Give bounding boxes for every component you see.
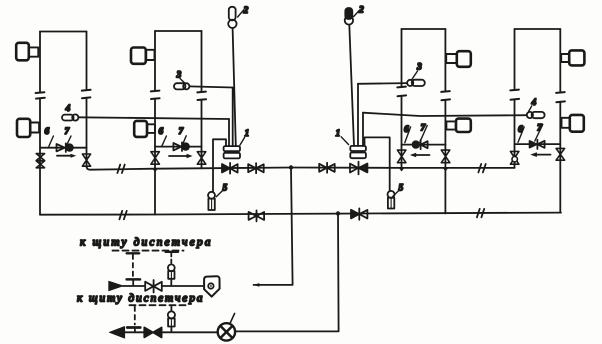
flow indicator 4 (S1): [62, 114, 78, 120]
flow indicator 3 (S3): [407, 80, 425, 86]
svg-text:6: 6: [159, 127, 164, 137]
wire: indicator4 drop into box1 right: [362, 113, 364, 146]
impulse line from indicator 3 to box 1 right: [358, 82, 407, 85]
pressure sensor 2 right: [345, 8, 353, 25]
svg-text:6: 6: [45, 127, 50, 137]
stub to pipe row2 left: [134, 329, 136, 332]
valve G row1 (gate): [145, 280, 162, 293]
pipe row2 segment a: [125, 331, 145, 333]
stub to pipe row1 left: [132, 281, 134, 286]
impulse line from indicator 3 to box 1 left: [189, 86, 232, 87]
leader 7 (S3): [420, 126, 427, 143]
motor M6 lower on S3: [446, 119, 470, 132]
valve A upper header (check, seat left): [222, 163, 238, 174]
orifice cartridge row2: [168, 311, 175, 326]
svg-text:7: 7: [179, 127, 185, 137]
dashed signal line row 1: [113, 250, 184, 252]
svg-text:4: 4: [65, 104, 71, 114]
svg-text:5: 5: [223, 184, 228, 194]
pipe break marks S2 left riser: [151, 91, 160, 99]
well separator S3 casing: [402, 29, 446, 214]
break mark upper header left: [117, 165, 124, 173]
gate valve S1 right: [82, 154, 90, 166]
impulse line from indicator 4 to box 1 left: [78, 117, 229, 119]
flow arrow S3: [410, 153, 430, 158]
motor M2 lower on S1: [17, 119, 39, 137]
junction blob S2-left/upper header: [153, 169, 158, 172]
leader 7 (S4): [535, 125, 543, 142]
gate valve S2 right: [197, 152, 206, 165]
leader 5 left: [216, 191, 222, 197]
leader 7 (S2): [183, 136, 186, 143]
leader 3 (S3): [412, 71, 418, 80]
node junction center lower: [336, 211, 340, 215]
dashed drop row1 right: [170, 253, 172, 264]
junction blob S3-right/upper header: [443, 168, 448, 171]
svg-text:7: 7: [65, 127, 71, 137]
wire sensor2 right to box1 right: [349, 25, 354, 146]
break mark upper header right: [478, 164, 485, 172]
pipe break marks S3 left riser: [397, 87, 406, 97]
gate valve S4 left with plug: [510, 151, 519, 164]
valve E lower header (gate): [249, 210, 265, 221]
instrument box 1 left: [224, 146, 240, 158]
leader 6 (S3): [405, 127, 411, 143]
dashed drop row2 right: [170, 307, 172, 312]
gate valve S3 left: [397, 150, 406, 163]
well separator S4 casing: [515, 29, 561, 213]
pipe row2 segment b: [162, 331, 218, 333]
sampler 5 right: [388, 191, 395, 209]
instrument box 1 right: [350, 146, 366, 158]
leader 2 left: [238, 10, 244, 17]
svg-text:1: 1: [336, 129, 341, 139]
panel tap T-bar row1 bottom: [127, 278, 140, 281]
well separator S2 casing: [155, 31, 202, 215]
upper header pipe: [87, 166, 515, 170]
break mark lower header left: [119, 211, 126, 219]
motor M8 lower on S4: [562, 115, 584, 132]
exit arrow row1: [109, 281, 123, 290]
cross pipe S4: [515, 143, 561, 145]
wire: indicator3 drop into box1: [232, 88, 234, 147]
leader 1 left: [240, 137, 245, 145]
gate valve S3 right: [441, 150, 450, 163]
leader 3 (S2): [180, 79, 185, 84]
wire sensor2 left to box1 left: [233, 28, 236, 146]
valve F lower header (check, seat left): [351, 208, 367, 219]
panel tap T-bar row1 right: [166, 251, 178, 253]
pressure sensor 2 left: [228, 7, 236, 28]
svg-text:5: 5: [399, 184, 404, 194]
well separator S1 casing: [40, 32, 87, 215]
arrow tip on dispatcher line: [253, 283, 259, 287]
check valve 7 (S2): [173, 142, 189, 151]
leader 7 (S1): [67, 136, 71, 145]
wire: indicator3 drop into box1 right: [357, 84, 359, 146]
motor M1 upper on S1: [16, 43, 38, 61]
blower device (circle-X) row2: [218, 313, 235, 340]
lower header pipe: [40, 213, 561, 215]
pipe break marks S3 right riser: [441, 91, 450, 100]
wire: indicator4 drop into box1: [228, 119, 230, 146]
check valve 7 (S1): [57, 143, 73, 152]
motor M3 upper on S2: [131, 48, 155, 64]
leader 6 (S1): [49, 136, 54, 146]
valve B upper header (gate): [248, 163, 264, 173]
sampler 5 left: [208, 192, 215, 210]
flow indicator 4 (S4): [527, 112, 545, 118]
break mark lower header right: [477, 209, 484, 217]
panel tap T-bar row2: [127, 326, 140, 329]
pipe break marks S4 right riser: [556, 92, 565, 102]
pipe break marks S1 left riser: [36, 92, 45, 98]
pipe break marks S2 right riser: [197, 92, 206, 100]
leader 6 (S2): [162, 136, 167, 146]
pipe row1 segment a: [123, 285, 145, 287]
check valve 7 (S3): [413, 140, 428, 149]
cross pipe S2: [155, 146, 202, 148]
flow arrow S4: [530, 152, 550, 157]
center riser from upper header to dispatcher line: [254, 168, 293, 285]
leader 1 right: [341, 137, 348, 145]
exit arrow row2: [110, 327, 125, 338]
flow arrow S1: [57, 154, 76, 158]
impulse line from indicator 4 to box 1 right: [363, 113, 527, 116]
pipe break marks S4 left riser: [510, 90, 519, 100]
dashed drop row1 left: [132, 255, 134, 278]
dashed signal line row 2: [130, 304, 187, 306]
pipe break marks S1 right riser: [82, 90, 91, 98]
check valve 7 (S4): [530, 140, 545, 149]
meter device (shield) row1: [204, 276, 220, 296]
flow arrow S2: [169, 154, 193, 158]
svg-text:к щиту диспетчера: к щиту диспетчера: [80, 237, 212, 249]
cross pipe S1: [40, 147, 87, 149]
leader 2 right: [354, 10, 360, 17]
stub cartridge to pipe row1: [170, 279, 172, 286]
node junction center upper: [289, 165, 293, 169]
orifice cartridge row1: [168, 264, 175, 278]
panel tap T-bar row1 top: [127, 252, 140, 254]
svg-text:к щиту диспетчера: к щиту диспетчера: [77, 293, 204, 305]
valve H row2 (closed): [144, 327, 161, 337]
leader 5 right: [393, 191, 399, 197]
motor M5 upper on S3: [446, 51, 471, 67]
pipe row1 segment b: [162, 285, 203, 287]
gate valve S2 left: [151, 152, 160, 165]
leader 4 (S4): [529, 106, 532, 112]
wire box1 right output to sampler 5 right: [365, 137, 390, 190]
motor M4 lower on S2: [134, 121, 155, 137]
motor M7 upper on S4: [561, 50, 584, 65]
cross pipe S3: [402, 144, 446, 146]
flow indicator 3 (S2): [174, 83, 189, 89]
stub cartridge to pipe row2: [170, 327, 172, 332]
dashed drop row2 left: [134, 307, 136, 325]
junction blob S3-left/upper header: [399, 168, 404, 171]
valve D upper header (check, seat right): [350, 162, 367, 175]
wire box1 left output to sampler 5: [213, 139, 226, 191]
gate valve S1 left (double): [36, 154, 44, 168]
valve C upper header (gate): [319, 163, 335, 173]
center riser from lower header to bottom line: [236, 214, 339, 332]
gate valve S4 right: [556, 148, 565, 160]
leader 6 (S4): [518, 127, 524, 142]
